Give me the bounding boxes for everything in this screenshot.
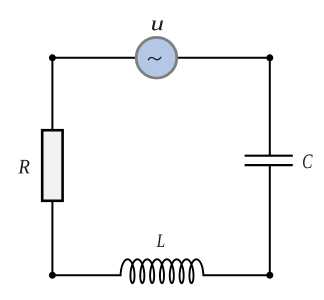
label C [303, 154, 313, 168]
wire bottom-left segment (node D to inductor) [52, 274, 121, 276]
resistor R (rectangle) [42, 130, 62, 201]
label R [18, 160, 29, 174]
wire right lower segment (capacitor to node E) [269, 165, 271, 276]
capacitor C top plate [245, 155, 293, 157]
label u [152, 21, 163, 31]
wire top-left segment (node A to source) [52, 57, 137, 59]
ac sine wave symbol [148, 57, 160, 60]
inductor L (coil) [121, 259, 204, 283]
wire left upper segment (node A to resistor) [51, 58, 53, 130]
node top-right [266, 54, 273, 61]
ac voltage source u (circle) [136, 37, 177, 78]
label L [157, 235, 165, 248]
wire bottom-right segment (inductor to node E) [203, 274, 270, 276]
node bottom-right [266, 272, 273, 279]
wire right upper segment (node B to capacitor) [269, 58, 271, 157]
node top-left [49, 54, 56, 61]
wire left lower segment (resistor to node D) [51, 201, 53, 275]
wire top-right segment (source to node B) [177, 57, 270, 59]
capacitor C bottom plate [245, 164, 293, 166]
node bottom-left [49, 272, 56, 279]
